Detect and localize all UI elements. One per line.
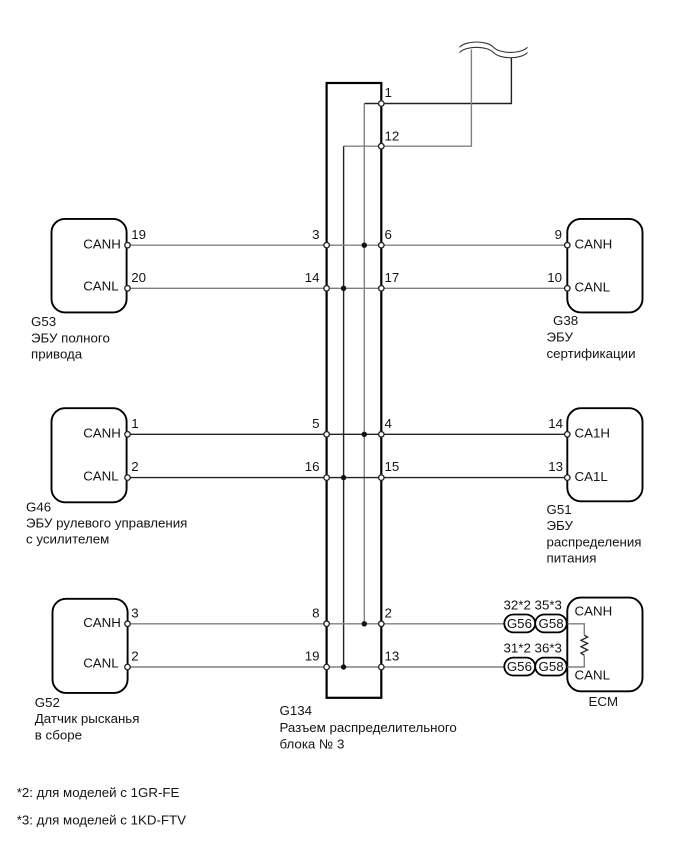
svg-text:2: 2: [131, 459, 138, 474]
svg-text:16: 16: [305, 459, 320, 474]
junction dot CANH row E: [362, 621, 367, 626]
svg-text:19: 19: [131, 227, 146, 242]
pin circle G134-14: [324, 286, 330, 292]
pin circle G134-4: [379, 432, 385, 438]
pin circle G134-17: [379, 286, 385, 292]
svg-text:CANH: CANH: [83, 426, 121, 441]
svg-text:в сборе: в сборе: [35, 727, 82, 742]
svg-text:9: 9: [555, 227, 562, 242]
pin circle G134-16: [324, 475, 330, 481]
svg-text:3: 3: [312, 227, 319, 242]
svg-text:3: 3: [131, 606, 138, 621]
svg-text:32*2 35*3: 32*2 35*3: [504, 597, 562, 612]
pin circle G134-12: [379, 143, 385, 149]
connector oval G58 row CANL: [535, 658, 567, 676]
svg-text:15: 15: [385, 459, 400, 474]
wire ECM jumper CANL side: [567, 655, 584, 667]
svg-text:привода: привода: [31, 347, 83, 362]
svg-text:14: 14: [548, 416, 563, 431]
svg-text:13: 13: [548, 459, 563, 474]
svg-text:1: 1: [385, 85, 392, 100]
pin circle G134-2: [379, 621, 385, 627]
svg-text:G56: G56: [507, 659, 532, 674]
svg-text:13: 13: [385, 649, 400, 664]
svg-text:14: 14: [305, 270, 320, 285]
pin circle G52-3: [125, 621, 131, 627]
wire CANH bus vertical: [363, 104, 365, 624]
svg-text:*3: для моделей с 1KD-FTV: *3: для моделей с 1KD-FTV: [17, 813, 186, 828]
pin circle G51-13: [565, 475, 571, 481]
ECU block G38: [567, 219, 642, 313]
svg-text:G38: G38: [553, 313, 578, 328]
svg-text:CA1H: CA1H: [575, 426, 610, 441]
wire ECM jumper CANH side: [567, 624, 584, 635]
wire pin1 to harness: [381, 58, 511, 104]
svg-text:распределения: распределения: [547, 534, 642, 549]
pin circle G46-2: [125, 475, 131, 481]
svg-text:8: 8: [312, 606, 319, 621]
svg-text:CANL: CANL: [575, 668, 610, 683]
pin circle G134-5: [324, 432, 330, 438]
svg-text:с усилителем: с усилителем: [26, 532, 109, 547]
ECU block ECM: [567, 598, 642, 692]
svg-text:2: 2: [131, 649, 138, 664]
pin circle G134-3: [324, 242, 330, 248]
junction dot CANH row C: [362, 432, 367, 437]
pin circle G38-9: [565, 242, 571, 248]
svg-text:Датчик рысканья: Датчик рысканья: [35, 711, 140, 726]
svg-text:CANH: CANH: [83, 615, 121, 630]
ECU block G51: [567, 408, 642, 501]
pin circle G134-1: [379, 101, 385, 107]
wire G52 CANL row: [128, 666, 568, 668]
svg-text:*2: для моделей с 1GR-FE: *2: для моделей с 1GR-FE: [17, 785, 180, 800]
ECU block G52: [53, 599, 128, 693]
svg-text:19: 19: [305, 649, 320, 664]
svg-text:CANL: CANL: [83, 278, 118, 293]
wire G52 CANH row: [128, 623, 568, 625]
svg-text:ЭБУ: ЭБУ: [547, 518, 574, 533]
svg-text:питания: питания: [547, 551, 597, 566]
wire pin12 to harness: [381, 50, 471, 147]
pin circle G51-14: [565, 432, 571, 438]
svg-text:ECM: ECM: [589, 694, 619, 709]
ECU block G46: [52, 408, 127, 502]
svg-text:CANH: CANH: [575, 604, 613, 619]
pin circle G52-2: [125, 664, 131, 670]
svg-text:CANL: CANL: [83, 655, 118, 670]
svg-text:10: 10: [547, 270, 562, 285]
junction dot CANL row D: [341, 475, 346, 480]
svg-text:CANL: CANL: [575, 280, 610, 295]
svg-text:G52: G52: [35, 695, 60, 710]
svg-text:G134: G134: [280, 703, 313, 718]
harness squiggle upper line: [460, 42, 528, 52]
svg-text:ЭБУ: ЭБУ: [547, 330, 574, 345]
pin circle G134-6: [379, 242, 385, 248]
svg-text:блока № 3: блока № 3: [280, 737, 345, 752]
wire G53 CANL row: [128, 287, 568, 289]
svg-text:12: 12: [385, 129, 400, 144]
svg-text:CANH: CANH: [575, 236, 613, 251]
wire pin12 internal stub: [344, 145, 382, 147]
svg-text:5: 5: [312, 416, 319, 431]
connector oval G58 row CANH: [535, 615, 567, 633]
junction dot CANH row A: [362, 243, 367, 248]
pin circle G46-1: [125, 432, 131, 438]
svg-text:G58: G58: [539, 659, 564, 674]
pin circle G53-19: [125, 242, 131, 248]
svg-text:17: 17: [385, 270, 400, 285]
pin circle G38-10: [565, 286, 571, 292]
connector oval G56 row CANL: [504, 658, 535, 676]
wire CANL bus vertical: [343, 146, 345, 667]
resistor terminating inside ECM: [581, 635, 588, 655]
pin circle G53-20: [125, 286, 131, 292]
ECU block G53: [52, 219, 127, 313]
pin circle G134-8: [324, 621, 330, 627]
svg-text:G53: G53: [31, 314, 56, 329]
svg-text:G58: G58: [539, 616, 564, 631]
svg-text:6: 6: [385, 227, 392, 242]
wire G53 CANH row: [128, 244, 568, 246]
svg-text:CANH: CANH: [83, 236, 121, 251]
junction dot CANL row F: [341, 664, 346, 669]
svg-text:Разъем распределительного: Разъем распределительного: [280, 720, 457, 735]
svg-text:G51: G51: [547, 502, 572, 517]
harness squiggle lower line: [460, 47, 528, 57]
pin circle G134-13: [379, 664, 385, 670]
junction dot CANL row B: [341, 286, 346, 291]
svg-text:сертификации: сертификации: [547, 346, 636, 361]
junction block G134: [327, 83, 382, 698]
svg-text:G46: G46: [26, 499, 51, 514]
svg-text:31*2 36*3: 31*2 36*3: [504, 640, 562, 655]
svg-text:ЭБУ рулевого управления: ЭБУ рулевого управления: [26, 516, 187, 531]
wire G46 CANL row: [128, 477, 568, 479]
wire pin1 internal stub: [364, 103, 381, 105]
svg-text:4: 4: [385, 416, 392, 431]
wire G46 CANH row: [128, 433, 568, 435]
svg-text:CANL: CANL: [83, 468, 118, 483]
svg-text:2: 2: [385, 606, 392, 621]
svg-text:CA1L: CA1L: [575, 469, 608, 484]
pin circle G134-19: [324, 664, 330, 670]
connector oval G56 row CANH: [504, 615, 535, 633]
pin circle G134-15: [379, 475, 385, 481]
svg-text:ЭБУ полного: ЭБУ полного: [31, 330, 110, 345]
svg-text:1: 1: [131, 416, 138, 431]
svg-text:G56: G56: [507, 616, 532, 631]
svg-text:20: 20: [131, 270, 146, 285]
